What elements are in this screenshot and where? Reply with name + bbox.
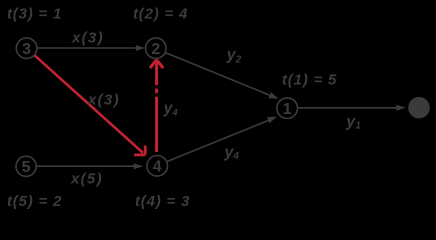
svg-text:x(3): x(3): [87, 92, 120, 109]
node 5: [16, 156, 36, 176]
node 3: [16, 38, 37, 59]
arrowhead edge 1->sink: [396, 105, 406, 111]
arrowhead red edge 4->2: [150, 60, 163, 69]
svg-text:5: 5: [22, 159, 31, 176]
node 4: [147, 156, 168, 177]
svg-text:x(5): x(5): [70, 171, 103, 188]
node sink (filled): [408, 97, 430, 119]
wire red edge 3->4: [34, 55, 143, 153]
arrowhead edge 3->2: [136, 45, 146, 51]
svg-text:t(4) = 3: t(4) = 3: [135, 193, 190, 210]
wire edge 4->1: [167, 120, 269, 161]
svg-text:1: 1: [283, 101, 292, 118]
wire edge 2->1: [165, 53, 269, 96]
svg-text:4: 4: [153, 158, 162, 175]
node 2: [146, 38, 167, 59]
svg-text:2: 2: [151, 41, 160, 58]
arrowhead red edge 3->4: [134, 146, 145, 155]
svg-text:3: 3: [22, 41, 31, 58]
arrowhead edge 2->1: [268, 92, 278, 98]
wire edge 3->2: [37, 47, 137, 49]
svg-text:t(3) = 1: t(3) = 1: [7, 6, 62, 23]
svg-text:t(1) = 5: t(1) = 5: [282, 72, 337, 89]
wire edge 5->4: [36, 165, 135, 167]
svg-text:t(2) = 4: t(2) = 4: [133, 6, 188, 23]
wire edge 1->sink: [298, 107, 398, 109]
arrowhead edge 4->1: [267, 117, 277, 124]
svg-text:t(5) = 2: t(5) = 2: [7, 193, 62, 210]
node 1: [277, 98, 298, 119]
wire red edge 4->2 (dash-dot): [155, 68, 158, 153]
svg-text:x(3): x(3): [71, 29, 104, 46]
arrowhead edge 5->4: [134, 163, 144, 169]
